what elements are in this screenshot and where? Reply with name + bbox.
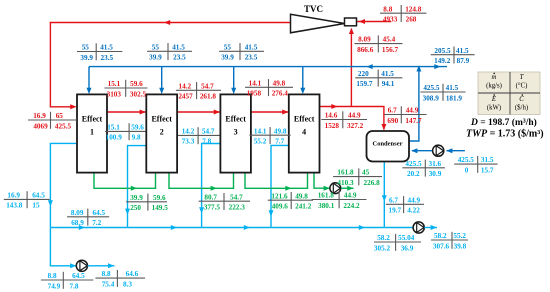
svg-text:159.7: 159.7 xyxy=(356,80,373,88)
svg-text:64.5: 64.5 xyxy=(32,192,45,200)
svg-text:Effect: Effect xyxy=(82,114,103,123)
svg-text:866.6: 866.6 xyxy=(357,46,374,54)
svg-text:39.9: 39.9 xyxy=(130,194,143,202)
svg-text:45: 45 xyxy=(362,169,370,177)
svg-text:64.6: 64.6 xyxy=(126,270,139,278)
svg-text:C: C xyxy=(519,96,524,103)
svg-text:425.5: 425.5 xyxy=(423,84,440,92)
svg-text:149.2: 149.2 xyxy=(434,57,451,65)
svg-text:Condenser: Condenser xyxy=(373,141,403,148)
svg-text:49.8: 49.8 xyxy=(273,79,286,87)
svg-text:14.2: 14.2 xyxy=(179,82,192,90)
svg-text:276.4: 276.4 xyxy=(272,90,289,98)
svg-text:156.7: 156.7 xyxy=(382,46,399,54)
svg-text:14.6: 14.6 xyxy=(325,112,338,120)
svg-text:7.7: 7.7 xyxy=(275,138,284,146)
svg-text:8.3: 8.3 xyxy=(123,280,132,288)
svg-text:2: 2 xyxy=(160,127,164,136)
svg-text:124.8: 124.8 xyxy=(405,5,422,13)
svg-text:31.5: 31.5 xyxy=(481,156,494,164)
svg-text:m: m xyxy=(492,74,497,81)
svg-text:D = 198.7 (m³/h): D = 198.7 (m³/h) xyxy=(470,117,537,128)
svg-text:58.2: 58.2 xyxy=(434,232,447,240)
svg-text:65: 65 xyxy=(56,112,64,120)
svg-text:39.9: 39.9 xyxy=(221,54,234,62)
svg-text:8.09: 8.09 xyxy=(71,209,84,217)
svg-text:23.5: 23.5 xyxy=(245,54,258,62)
svg-text:39.8: 39.8 xyxy=(454,242,467,250)
svg-text:44.9: 44.9 xyxy=(344,192,357,200)
svg-text:8.8: 8.8 xyxy=(383,5,392,13)
svg-text:308.9: 308.9 xyxy=(423,94,440,102)
svg-text:31.6: 31.6 xyxy=(429,160,442,168)
svg-text:20.2: 20.2 xyxy=(407,170,420,178)
svg-text:59.6: 59.6 xyxy=(130,80,143,88)
svg-text:44.9: 44.9 xyxy=(348,112,361,120)
svg-text:Effect: Effect xyxy=(151,114,172,123)
svg-text:49.8: 49.8 xyxy=(295,192,308,200)
svg-text:23.5: 23.5 xyxy=(173,54,186,62)
svg-text:41.5: 41.5 xyxy=(100,44,113,52)
svg-text:205.5: 205.5 xyxy=(434,47,451,55)
svg-text:268: 268 xyxy=(406,16,417,24)
svg-text:80.7: 80.7 xyxy=(204,193,217,201)
svg-text:49.8: 49.8 xyxy=(274,127,287,135)
svg-text:15.1: 15.1 xyxy=(107,124,120,132)
svg-text:14.1: 14.1 xyxy=(254,127,267,135)
svg-text:TWP = 1.73 ($/m³): TWP = 1.73 ($/m³) xyxy=(466,129,544,140)
svg-text:TVC: TVC xyxy=(304,4,323,14)
svg-text:7.8: 7.8 xyxy=(70,282,79,290)
svg-text:68.9: 68.9 xyxy=(71,219,84,227)
svg-text:224.2: 224.2 xyxy=(343,202,360,210)
svg-text:64.5: 64.5 xyxy=(93,209,106,217)
svg-text:4.22: 4.22 xyxy=(407,207,420,215)
svg-text:30.9: 30.9 xyxy=(429,170,442,178)
svg-text:3103: 3103 xyxy=(107,90,122,98)
svg-text:250: 250 xyxy=(130,204,141,212)
svg-text:6.7: 6.7 xyxy=(388,107,397,115)
svg-text:41.5: 41.5 xyxy=(172,43,185,51)
svg-text:161.8: 161.8 xyxy=(318,192,335,200)
svg-text:0: 0 xyxy=(465,166,469,174)
svg-text:14.1: 14.1 xyxy=(249,79,262,87)
svg-text:261.8: 261.8 xyxy=(200,93,217,101)
svg-text:425.5: 425.5 xyxy=(458,156,475,164)
svg-text:41.5: 41.5 xyxy=(245,43,258,51)
svg-text:1528: 1528 xyxy=(325,122,340,130)
svg-text:181.9: 181.9 xyxy=(446,94,463,102)
svg-text:161.8: 161.8 xyxy=(337,169,354,177)
svg-text:377.5: 377.5 xyxy=(204,204,221,212)
svg-text:41.5: 41.5 xyxy=(381,70,394,78)
svg-text:147.7: 147.7 xyxy=(405,117,422,125)
svg-text:54.7: 54.7 xyxy=(230,193,243,201)
svg-text:55: 55 xyxy=(82,44,90,52)
svg-text:44.9: 44.9 xyxy=(408,196,421,204)
svg-text:55: 55 xyxy=(152,43,160,51)
svg-text:380.1: 380.1 xyxy=(318,202,335,210)
svg-text:4069: 4069 xyxy=(33,122,48,130)
svg-text:(kg/s): (kg/s) xyxy=(486,83,502,90)
svg-text:220: 220 xyxy=(358,70,369,78)
svg-text:45.4: 45.4 xyxy=(383,36,396,44)
svg-text:8.8: 8.8 xyxy=(48,272,57,280)
svg-text:23.5: 23.5 xyxy=(101,54,114,62)
svg-text:4933: 4933 xyxy=(383,16,398,24)
svg-text:55: 55 xyxy=(224,43,232,51)
svg-text:14.2: 14.2 xyxy=(182,128,195,136)
svg-text:Effect: Effect xyxy=(225,114,246,123)
svg-text:64.5: 64.5 xyxy=(72,272,85,280)
svg-text:55.04: 55.04 xyxy=(398,234,415,242)
svg-text:7.2: 7.2 xyxy=(92,219,101,227)
svg-text:8.8: 8.8 xyxy=(102,270,111,278)
svg-text:149.5: 149.5 xyxy=(152,204,169,212)
svg-text:7.8: 7.8 xyxy=(202,138,211,146)
svg-text:6.7: 6.7 xyxy=(389,196,398,204)
svg-text:9.8: 9.8 xyxy=(132,134,141,142)
svg-text:425.5: 425.5 xyxy=(55,122,72,130)
svg-text:87.9: 87.9 xyxy=(457,57,470,65)
svg-text:Effect: Effect xyxy=(294,114,315,123)
svg-text:1: 1 xyxy=(90,127,94,136)
svg-text:16.9: 16.9 xyxy=(33,112,46,120)
svg-text:4: 4 xyxy=(302,127,306,136)
svg-text:425.5: 425.5 xyxy=(405,160,422,168)
svg-text:19.7: 19.7 xyxy=(389,207,402,215)
svg-text:55.2: 55.2 xyxy=(453,232,466,240)
svg-text:307.6: 307.6 xyxy=(433,242,450,250)
svg-text:15: 15 xyxy=(32,202,40,210)
svg-text:302.5: 302.5 xyxy=(130,90,147,98)
svg-text:15.1: 15.1 xyxy=(108,80,121,88)
svg-text:55.2: 55.2 xyxy=(254,138,267,146)
svg-text:39.9: 39.9 xyxy=(80,54,93,62)
svg-text:59.6: 59.6 xyxy=(153,194,166,202)
svg-text:8.09: 8.09 xyxy=(358,36,371,44)
svg-text:(°C): (°C) xyxy=(516,83,528,90)
svg-text:305.2: 305.2 xyxy=(374,244,391,252)
svg-text:E: E xyxy=(491,96,497,103)
svg-text:2457: 2457 xyxy=(178,93,193,101)
svg-text:(kW): (kW) xyxy=(487,105,501,112)
svg-text:327.2: 327.2 xyxy=(347,122,364,130)
svg-text:36.9: 36.9 xyxy=(401,244,414,252)
svg-text:121.6: 121.6 xyxy=(271,192,288,200)
svg-text:58.2: 58.2 xyxy=(377,234,390,242)
svg-text:94.1: 94.1 xyxy=(382,80,395,88)
svg-text:1958: 1958 xyxy=(247,90,262,98)
svg-text:73.3: 73.3 xyxy=(182,138,195,146)
svg-text:44.9: 44.9 xyxy=(406,107,419,115)
svg-text:41.5: 41.5 xyxy=(446,84,459,92)
svg-text:143.8: 143.8 xyxy=(6,202,23,210)
svg-text:3: 3 xyxy=(234,127,238,136)
svg-text:54.7: 54.7 xyxy=(202,128,215,136)
svg-text:226.8: 226.8 xyxy=(364,179,381,187)
svg-text:39.9: 39.9 xyxy=(149,54,162,62)
svg-text:15.7: 15.7 xyxy=(481,166,494,174)
svg-text:54.7: 54.7 xyxy=(201,82,214,90)
svg-text:16.9: 16.9 xyxy=(7,192,20,200)
svg-text:410.3: 410.3 xyxy=(337,179,354,187)
svg-text:241.2: 241.2 xyxy=(295,203,312,211)
svg-text:41.5: 41.5 xyxy=(456,47,469,55)
svg-text:($/h): ($/h) xyxy=(515,105,528,112)
svg-text:222.3: 222.3 xyxy=(229,204,246,212)
svg-text:75.4: 75.4 xyxy=(102,280,115,288)
svg-text:690: 690 xyxy=(387,117,398,125)
svg-text:74.9: 74.9 xyxy=(48,282,61,290)
svg-text:59.6: 59.6 xyxy=(131,124,144,132)
svg-text:409.6: 409.6 xyxy=(272,203,289,211)
svg-text:100.9: 100.9 xyxy=(106,134,123,142)
